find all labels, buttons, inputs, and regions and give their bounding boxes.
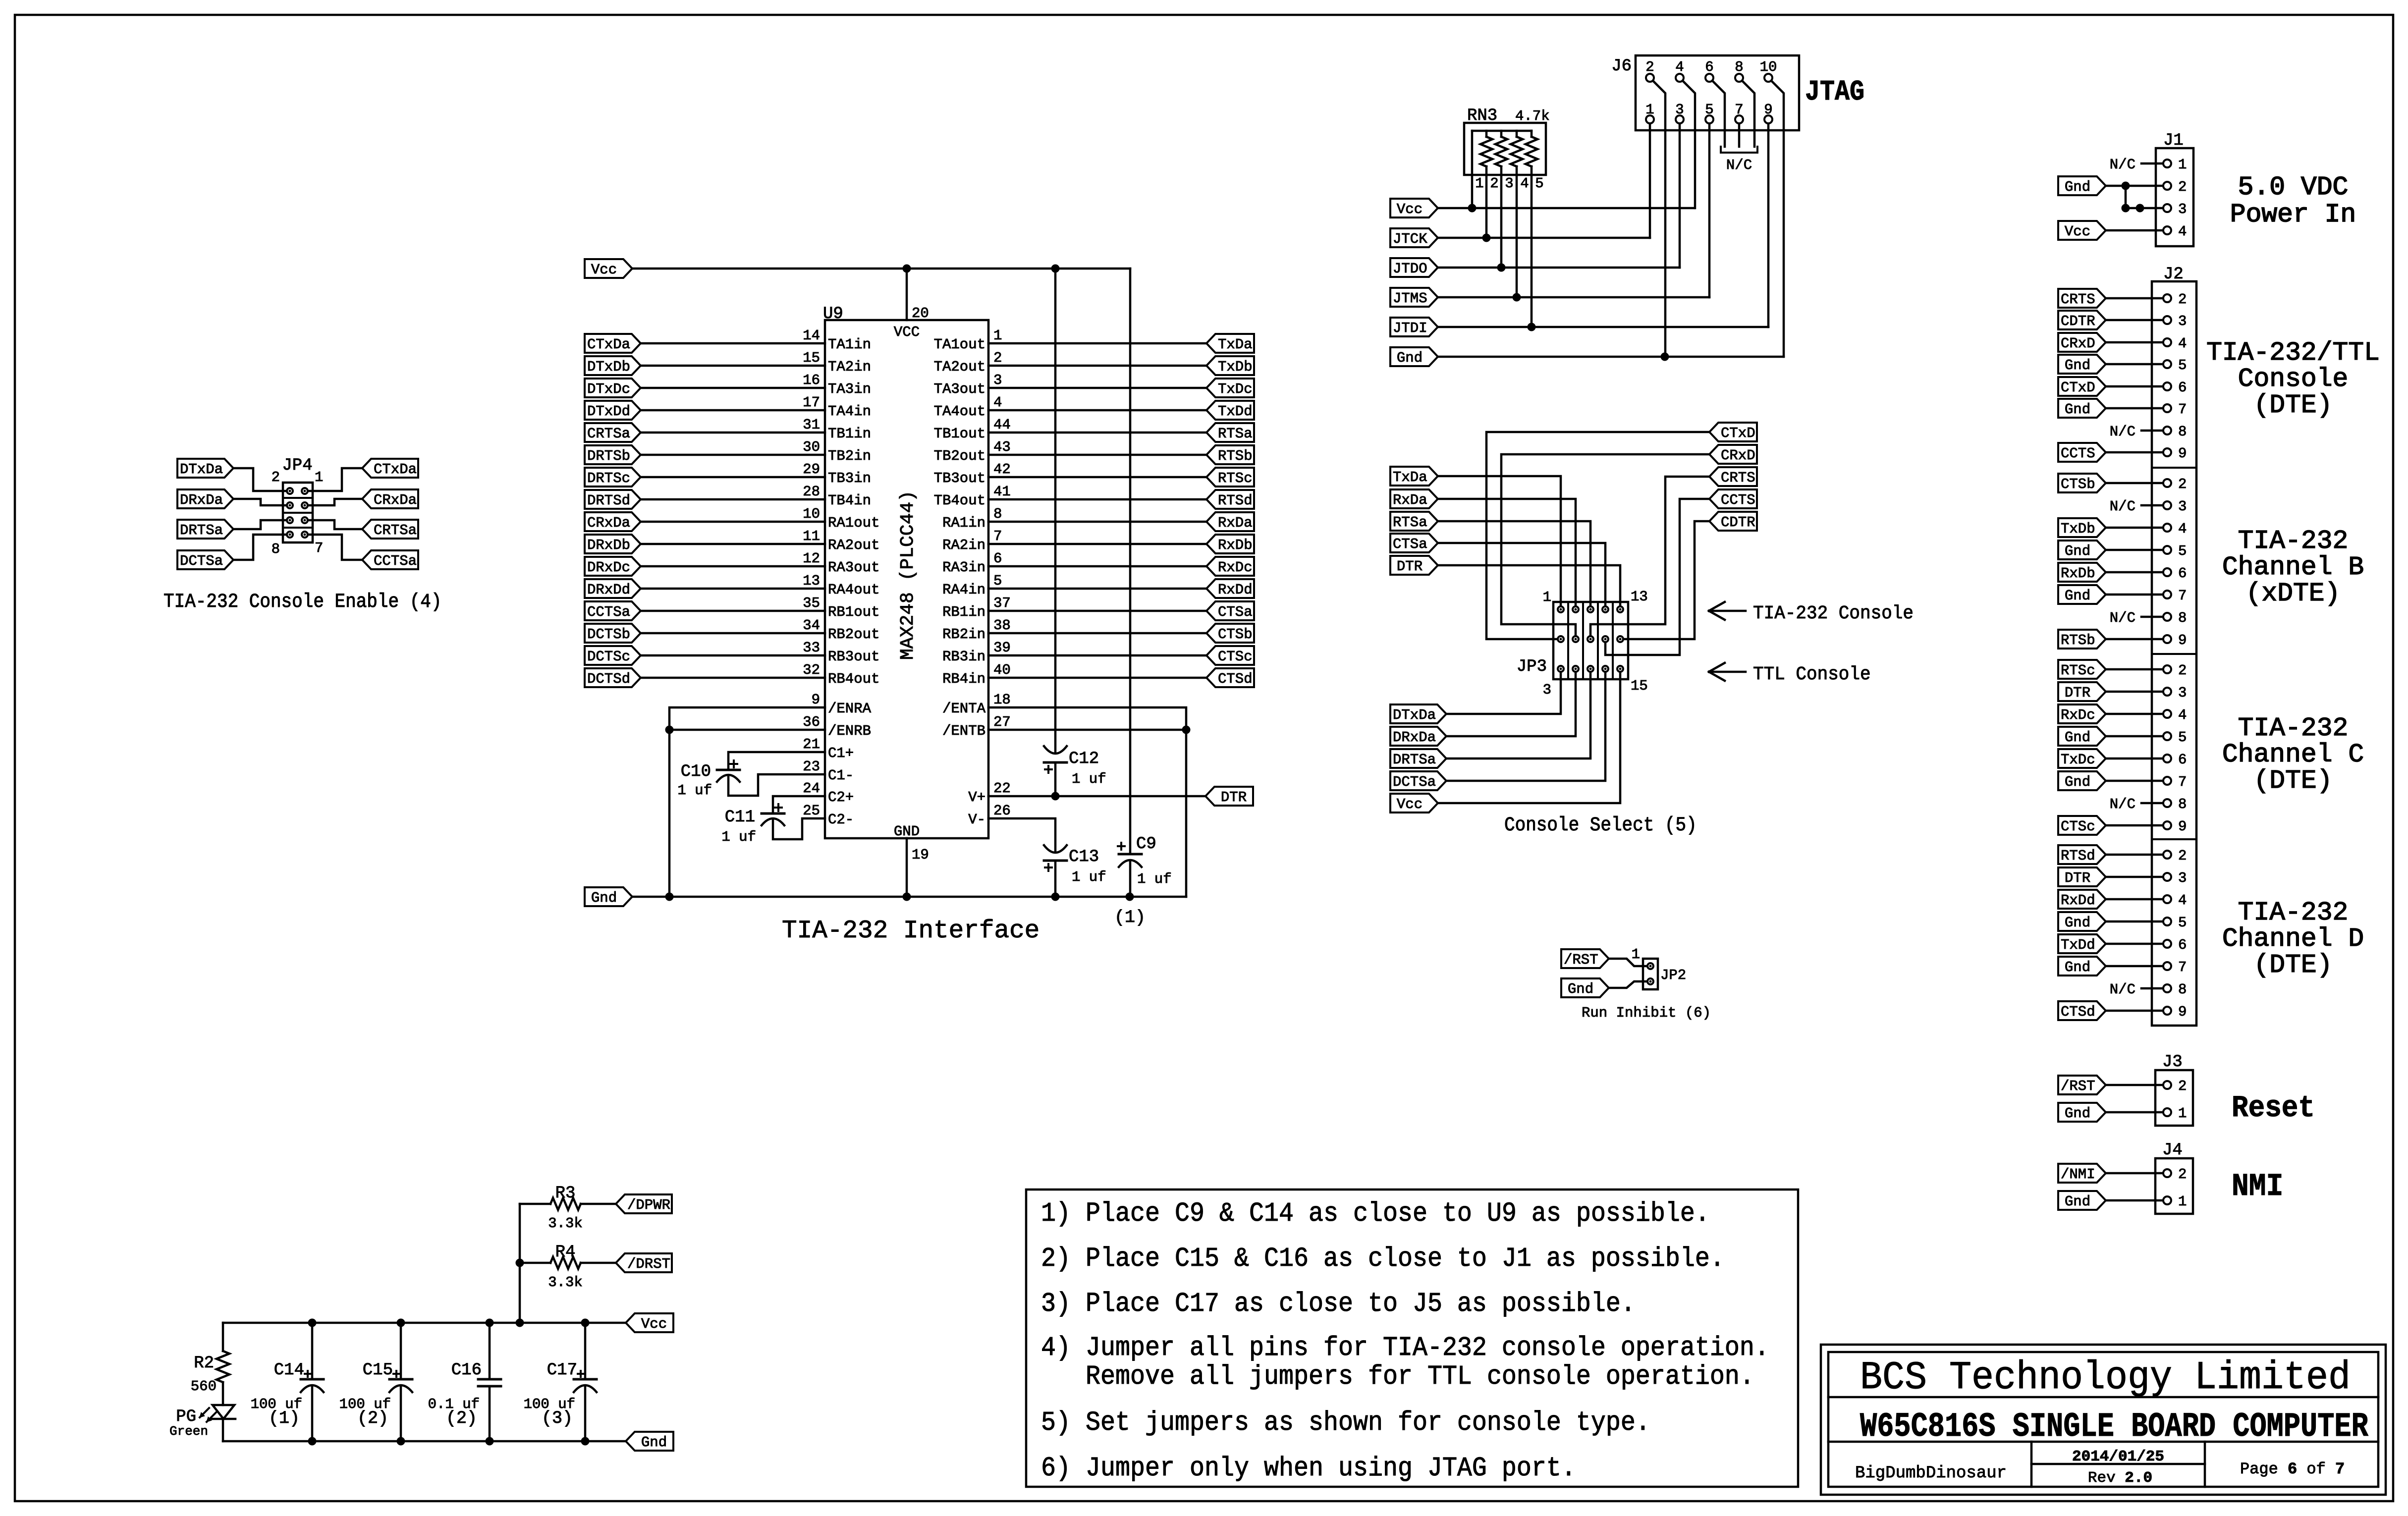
svg-text:8: 8 <box>2178 610 2187 626</box>
svg-text:RxDb: RxDb <box>2061 565 2095 582</box>
wire DCTSc to U9 pin 33 <box>641 654 825 657</box>
svg-text:3: 3 <box>1543 682 1551 698</box>
svg-text:TB4in: TB4in <box>828 492 871 509</box>
node Gnd (flag, JP2) <box>1561 978 1609 997</box>
svg-text:6: 6 <box>2178 379 2187 396</box>
svg-text:7: 7 <box>2178 774 2187 790</box>
node Gnd (flag, J2 group 2 pin 5) <box>2058 541 2106 559</box>
svg-text:Gnd: Gnd <box>591 890 617 906</box>
node DRxDa (flag, JP4 left) <box>177 489 233 508</box>
svg-text:JTDI: JTDI <box>1393 320 1427 336</box>
wire U9 pin 2 to TxDb <box>988 365 1206 367</box>
node DCTSc (flag, U9 left) <box>585 646 641 665</box>
label TIA-232/TTL Console (DTE) <box>2206 338 2380 420</box>
svg-text:Console: Console <box>2238 364 2349 394</box>
node TxDd (flag, U9 right) <box>1206 401 1254 420</box>
svg-text:3) Place C17 as close to J5 as: 3) Place C17 as close to J5 as possible. <box>1041 1288 1636 1319</box>
pin circle J2 <box>2163 635 2171 643</box>
pin circle J2 <box>2163 613 2171 621</box>
svg-text:37: 37 <box>993 595 1011 611</box>
svg-text:JP2: JP2 <box>1660 967 1686 983</box>
svg-text:4: 4 <box>2178 223 2187 240</box>
svg-text:CTSd: CTSd <box>2061 1004 2095 1020</box>
resistor RN3 element 3 <box>1511 131 1523 166</box>
svg-text:C1+: C1+ <box>828 745 854 761</box>
wire U9 pin 4 to TxDd <box>988 409 1206 412</box>
svg-text:5: 5 <box>993 573 1002 589</box>
svg-text:Gnd: Gnd <box>1568 981 1593 997</box>
capacitor C14 100 uf <box>251 1323 324 1441</box>
svg-text:38: 38 <box>993 617 1011 634</box>
svg-text:N/C: N/C <box>2110 498 2135 515</box>
pin circle J2 <box>2163 546 2171 554</box>
wire JP3 col 3 to DRTSa <box>1446 672 1590 758</box>
capacitor C13 <box>1044 845 1106 897</box>
wire JTDI (JTAG) <box>1438 326 1768 328</box>
svg-text:N/C: N/C <box>2110 610 2135 626</box>
wire CTxDa to U9 pin 14 <box>641 342 825 345</box>
svg-text:3: 3 <box>2178 313 2187 329</box>
node CTxD (flag, J2 group 1 pin 6) <box>2058 377 2106 396</box>
wire DTR to J2 pin <box>2106 876 2163 878</box>
label TIA-232 Channel B (xDTE) <box>2222 526 2364 608</box>
svg-text:TIA-232: TIA-232 <box>2238 526 2349 556</box>
capacitor C11 <box>721 804 784 845</box>
node /NMI (flag, J4) <box>2058 1164 2106 1183</box>
svg-text:JTCK: JTCK <box>1393 231 1427 247</box>
junction Vcc/pin20 <box>903 265 911 273</box>
svg-text:41: 41 <box>993 484 1011 500</box>
wire N/C stub <box>2141 616 2163 618</box>
svg-text:TxDd: TxDd <box>2061 937 2095 953</box>
svg-text:5: 5 <box>2178 915 2187 931</box>
svg-text:C12: C12 <box>1069 750 1099 768</box>
svg-text:N/C: N/C <box>2110 981 2135 998</box>
node /DPWR (flag) <box>616 1194 672 1213</box>
wire N/C stub <box>2141 802 2163 805</box>
node Gnd (flag, JTAG) <box>1390 347 1438 366</box>
svg-text:CRTSa: CRTSa <box>587 426 630 442</box>
pin circle J2 <box>2163 591 2171 598</box>
svg-text:CTSb: CTSb <box>1218 626 1253 643</box>
svg-text:TIA-232/TTL: TIA-232/TTL <box>2206 338 2380 368</box>
net Vcc (flag, U9 top) <box>585 259 632 278</box>
wire RTSc to J2 pin <box>2106 668 2163 671</box>
node CTSb (flag, U9 right) <box>1206 624 1254 643</box>
jumper block JP4 <box>282 456 313 542</box>
svg-text:RB2out: RB2out <box>828 626 879 643</box>
title block <box>1821 1345 2386 1495</box>
junction RN3-4/JTMS <box>1513 293 1521 302</box>
svg-text:1: 1 <box>2178 1193 2187 1210</box>
svg-text:DTR: DTR <box>2065 685 2090 701</box>
svg-text:RB3out: RB3out <box>828 649 879 665</box>
svg-text:TA1out: TA1out <box>934 336 985 353</box>
wire JTCK (JTAG) <box>1438 237 1650 239</box>
wire J6 pin 2 <box>1653 81 1665 357</box>
svg-text:RA2out: RA2out <box>828 537 879 553</box>
wire RN3 pin 4 <box>1516 166 1518 297</box>
wire U9 pin 19 stub <box>906 838 908 897</box>
wire U9 pin 41 to RTSd <box>988 498 1206 501</box>
junction Gnd/J6 pin 2 <box>1661 353 1669 361</box>
svg-text:Vcc: Vcc <box>591 262 617 278</box>
wire J6 pin 3 <box>1679 123 1681 268</box>
pin circle J2 <box>2163 799 2171 807</box>
svg-text:C16: C16 <box>451 1361 482 1380</box>
svg-text:DTxDa: DTxDa <box>1393 707 1436 723</box>
svg-text:RA4in: RA4in <box>942 582 985 598</box>
node CTSa (flag, U9 right) <box>1206 601 1254 620</box>
svg-text:C1-: C1- <box>828 767 854 784</box>
svg-text:TIA-232: TIA-232 <box>2238 898 2349 927</box>
node DTxDb (flag, U9 left) <box>585 356 641 375</box>
svg-text:7: 7 <box>993 528 1002 544</box>
pin circle J1 row 465 <box>2163 226 2171 234</box>
svg-text:1 uf: 1 uf <box>1072 771 1106 787</box>
pin circle J4-2 <box>2163 1169 2171 1177</box>
wire JP4 to CRxDa <box>308 499 362 505</box>
node /RST (flag, J3) <box>2058 1076 2106 1094</box>
svg-text:(2): (2) <box>446 1408 477 1428</box>
svg-text:C9: C9 <box>1136 835 1156 854</box>
node CTxDa (flag, JP4 right) <box>362 459 418 478</box>
svg-text:RA1out: RA1out <box>828 515 879 531</box>
wire DRxDa to JP4 <box>233 499 287 505</box>
svg-text:1 uf: 1 uf <box>1072 869 1106 885</box>
wire CDTR to J2 pin <box>2106 319 2163 322</box>
pin circle J2 <box>2163 479 2171 487</box>
svg-text:/ENRA: /ENRA <box>828 701 872 717</box>
pin circle J2 <box>2163 427 2171 434</box>
node TxDb (flag, U9 right) <box>1206 356 1254 375</box>
svg-text:16: 16 <box>803 372 820 388</box>
node CRxDa (flag, JP4 right) <box>362 489 418 508</box>
svg-text:DTxDa: DTxDa <box>180 461 223 478</box>
wire Gnd to J2 pin <box>2106 965 2163 968</box>
node TxDa (flag, JP3) <box>1390 467 1438 486</box>
svg-text:DTxDc: DTxDc <box>587 381 630 397</box>
svg-text:CRxDa: CRxDa <box>374 492 417 508</box>
node DTR (flag, JP3) <box>1390 556 1438 575</box>
node Gnd (flag, J2 group 3 pin 7) <box>2058 771 2106 790</box>
svg-text:RxDa: RxDa <box>1218 515 1253 531</box>
svg-text:Gnd: Gnd <box>2065 588 2090 604</box>
svg-text:29: 29 <box>803 461 820 478</box>
svg-text:Channel D: Channel D <box>2222 924 2364 954</box>
svg-text:Gnd: Gnd <box>641 1434 667 1451</box>
svg-text:TxDa: TxDa <box>1393 469 1427 486</box>
svg-text:Channel C: Channel C <box>2222 740 2364 769</box>
wire CRxD to JP3 <box>1501 454 1709 636</box>
svg-text:Gnd: Gnd <box>2065 1193 2090 1210</box>
wire RN3 pin 3 <box>1500 166 1503 268</box>
wire Vcc to J1 pin 4 <box>2106 229 2163 232</box>
svg-text:TxDa: TxDa <box>1218 336 1253 353</box>
svg-text:17: 17 <box>803 394 820 411</box>
wire U9 pin 44 to RTSa <box>988 432 1206 434</box>
svg-text:CTxD: CTxD <box>2061 379 2095 396</box>
node RxDb (flag, U9 right) <box>1206 535 1254 553</box>
svg-text:RxDd: RxDd <box>2061 892 2095 909</box>
svg-text:560: 560 <box>191 1378 217 1395</box>
node Gnd (flag, J2 group 4 pin 5) <box>2058 912 2106 931</box>
node RxDc (flag, U9 right) <box>1206 557 1254 576</box>
svg-text:25: 25 <box>803 803 820 819</box>
svg-text:J3: J3 <box>2162 1053 2183 1072</box>
svg-text:C11: C11 <box>725 808 755 827</box>
svg-text:Gnd: Gnd <box>2065 357 2090 374</box>
svg-text:TIA-232 Console: TIA-232 Console <box>1753 603 1914 624</box>
svg-text:CCTS: CCTS <box>1721 492 1755 508</box>
svg-text:Gnd: Gnd <box>2065 1105 2090 1122</box>
svg-text:DRTSa: DRTSa <box>1393 752 1436 768</box>
svg-text:1 uf: 1 uf <box>677 782 712 799</box>
svg-text:J2: J2 <box>2163 265 2184 284</box>
wire TxDa to JP3 col 1 <box>1438 476 1561 606</box>
svg-text:27: 27 <box>993 714 1011 730</box>
svg-text:1: 1 <box>993 327 1002 344</box>
junction RN3-5/JTDI <box>1528 323 1536 331</box>
svg-text:RxDc: RxDc <box>2061 707 2095 723</box>
wire J6 pin 5 <box>1708 123 1711 297</box>
svg-text:TB3in: TB3in <box>828 470 871 487</box>
svg-text:(DTE): (DTE) <box>2253 766 2332 796</box>
svg-text:33: 33 <box>803 640 820 656</box>
net Gnd (flag, bottom) <box>626 1432 673 1451</box>
svg-text:TB2out: TB2out <box>934 448 985 464</box>
wire Gnd to J2 pin <box>2106 594 2163 596</box>
capacitor C15 100 uf <box>339 1323 412 1441</box>
wire U9 pin 40 to CTSd <box>988 677 1206 679</box>
pin circle J2 <box>2163 732 2171 740</box>
wire J6 pin 10 <box>1771 81 1784 357</box>
wire U9 pin 37 to CTSa <box>988 610 1206 612</box>
wire U9 pin 7 to RxDb <box>988 543 1206 545</box>
wire Gnd to J3 pin 1 <box>2106 1111 2163 1114</box>
svg-text:TxDb: TxDb <box>1218 359 1253 375</box>
connector J4 <box>2155 1141 2193 1214</box>
wire DTxDc to U9 pin 16 <box>641 387 825 389</box>
node Gnd (flag, J4) <box>2058 1191 2106 1210</box>
junction Vcc rail x=630 <box>308 1319 317 1327</box>
wire CRxD to J2 pin <box>2106 341 2163 344</box>
node DTxDd (flag, U9 left) <box>585 401 641 420</box>
junction Gnd rail x=630 <box>308 1437 317 1446</box>
junction gnd/pin19 <box>903 893 911 901</box>
svg-text:1: 1 <box>315 469 323 486</box>
svg-text:43: 43 <box>993 439 1011 455</box>
svg-text:2) Place C15 & C16 as close to: 2) Place C15 & C16 as close to J1 as pos… <box>1041 1243 1725 1274</box>
svg-text:RA1in: RA1in <box>942 515 985 531</box>
svg-text:JP3: JP3 <box>1517 657 1547 676</box>
svg-text:TIA-232 Interface: TIA-232 Interface <box>782 917 1040 945</box>
junction gnd/C9 <box>1126 893 1134 901</box>
pin circle J6-5 <box>1705 115 1713 123</box>
wire CRTS to J2 pin <box>2106 297 2163 300</box>
resistor RN3 element 4 <box>1526 131 1537 166</box>
wire Gnd (JTAG) <box>1438 356 1784 358</box>
resistor RN3 element 2 <box>1495 131 1507 166</box>
svg-text:TB2in: TB2in <box>828 448 871 464</box>
wire RTSd to J2 pin <box>2106 854 2163 856</box>
pin circle J2 <box>2163 404 2171 412</box>
wire /RST to JP2 pin 1 <box>1609 959 1647 966</box>
svg-text:TA1in: TA1in <box>828 336 871 353</box>
wire DRxDd to U9 pin 13 <box>641 588 825 590</box>
pin circle J3-1 <box>2163 1108 2171 1116</box>
svg-text:CTSa: CTSa <box>1218 604 1253 620</box>
wire N/C stub <box>2141 430 2163 432</box>
wire Gnd to J4 pin 1 <box>2106 1199 2163 1202</box>
pin circle J2 <box>2163 524 2171 532</box>
svg-text:44: 44 <box>993 417 1011 433</box>
svg-text:DTR: DTR <box>1397 558 1423 575</box>
svg-text:CCTSa: CCTSa <box>587 604 630 620</box>
node CRxD (flag) <box>1709 445 1757 464</box>
svg-text:DRxDa: DRxDa <box>1393 729 1436 746</box>
node RxDd (flag, U9 right) <box>1206 579 1254 598</box>
jumper block JP3 <box>1553 602 1628 679</box>
pin circle J2 <box>2163 665 2171 673</box>
pin circle J2 <box>2163 1007 2171 1015</box>
pin circle J6-4 <box>1676 74 1684 82</box>
wire /NMI to J4 pin 2 <box>2106 1172 2163 1175</box>
svg-text:C13: C13 <box>1069 848 1099 866</box>
svg-text:8: 8 <box>993 506 1002 522</box>
svg-text:5.0 VDC: 5.0 VDC <box>2238 172 2349 202</box>
node CDTR (flag, J2 group 1 pin 3) <box>2058 311 2106 329</box>
svg-text:/RST: /RST <box>2061 1078 2095 1094</box>
svg-text:N/C: N/C <box>2110 796 2135 812</box>
svg-text:U9: U9 <box>823 305 843 324</box>
node DRxDa (flag, JP3 bottom) <box>1390 727 1446 746</box>
wire C1+ to C10 <box>728 752 825 770</box>
JP3 jumper pin circles <box>1558 606 1623 672</box>
svg-text:5) Set jumpers as shown for co: 5) Set jumpers as shown for console type… <box>1041 1407 1650 1438</box>
node DRxDd (flag, U9 left) <box>585 579 641 598</box>
node RTSd (flag, U9 right) <box>1206 490 1254 509</box>
svg-text:Page 6 of 7: Page 6 of 7 <box>2240 1460 2345 1478</box>
svg-text:CTSd: CTSd <box>1218 671 1253 687</box>
junction /ENTB <box>1182 726 1191 734</box>
svg-text:TA4in: TA4in <box>828 403 871 420</box>
svg-text:Gnd: Gnd <box>2065 729 2090 746</box>
pin circle J2 <box>2163 755 2171 762</box>
wire JTDO (JTAG) <box>1438 267 1680 269</box>
svg-text:TxDc: TxDc <box>2061 752 2095 768</box>
svg-text:CTSb: CTSb <box>2061 476 2095 492</box>
svg-text:5: 5 <box>2178 357 2187 374</box>
svg-text:RA4out: RA4out <box>828 582 879 598</box>
pin circle J2 <box>2163 316 2171 324</box>
node Gnd (flag, J2 group 1 pin 7) <box>2058 399 2106 418</box>
node RTSc (flag, J2 group 3 pin 2) <box>2058 660 2106 679</box>
wire CTxD to JP3 <box>1486 432 1709 639</box>
svg-text:4: 4 <box>2178 521 2187 537</box>
node CCTSa (flag, U9 left) <box>585 601 641 620</box>
junction R4 tap <box>516 1259 524 1267</box>
svg-text:(2): (2) <box>357 1408 388 1428</box>
svg-text:DRTSc: DRTSc <box>587 470 630 487</box>
wire Gnd to J2 pin <box>2106 780 2163 782</box>
svg-text:NMI: NMI <box>2232 1169 2283 1205</box>
wire Vcc rail to U9 pin 20 / C12 / C9 <box>632 268 1130 270</box>
svg-text:RxDb: RxDb <box>1218 537 1253 553</box>
pin circle J6-9 <box>1764 115 1772 123</box>
node CTSc (flag, U9 right) <box>1206 646 1254 665</box>
svg-text:Channel B: Channel B <box>2222 552 2364 582</box>
pin circle J2 <box>2163 338 2171 346</box>
svg-text:TTL Console: TTL Console <box>1753 664 1871 685</box>
svg-text:Green: Green <box>169 1424 208 1439</box>
svg-text:14: 14 <box>803 327 820 344</box>
svg-text:DCTSa: DCTSa <box>180 553 223 569</box>
svg-text:DRxDa: DRxDa <box>180 492 223 508</box>
capacitor C9 <box>1118 269 1172 897</box>
node DTR (flag) <box>1205 787 1253 806</box>
svg-text:10: 10 <box>803 506 820 522</box>
svg-text:(1): (1) <box>1114 908 1146 927</box>
svg-text:15: 15 <box>803 350 820 366</box>
wire V+ to DTR <box>988 795 1205 798</box>
svg-text:JTMS: JTMS <box>1393 290 1427 307</box>
svg-text:(DTE): (DTE) <box>2253 950 2332 980</box>
svg-text:RxDa: RxDa <box>1393 492 1427 508</box>
svg-text:DCTSc: DCTSc <box>587 649 630 665</box>
svg-text:2014/01/25: 2014/01/25 <box>2072 1448 2164 1465</box>
node DTxDa (flag, JP4 left) <box>177 459 233 478</box>
svg-text:Console Select (5): Console Select (5) <box>1504 814 1697 837</box>
node Vcc (flag, JP3 bottom) <box>1390 794 1438 812</box>
net Gnd (flag, U9 bottom) <box>585 887 632 906</box>
svg-text:TIA-232 Console Enable (4): TIA-232 Console Enable (4) <box>164 591 441 613</box>
svg-text:TB4out: TB4out <box>934 492 985 509</box>
svg-text:26: 26 <box>993 803 1011 819</box>
svg-text:(3): (3) <box>542 1408 573 1428</box>
junction V+/C12 <box>1051 792 1060 801</box>
wire U9 pin 1 to TxDa <box>988 342 1206 345</box>
svg-text:2: 2 <box>1490 175 1498 192</box>
pin circle J6-7 <box>1735 115 1743 123</box>
pin circle J2 <box>2163 382 2171 390</box>
pin circle J2 <box>2163 984 2171 992</box>
wire RN3 pin 2 <box>1485 166 1488 238</box>
node Gnd (flag, J3) <box>2058 1103 2106 1122</box>
svg-text:TA2out: TA2out <box>934 359 985 375</box>
svg-text:2: 2 <box>272 469 280 486</box>
node CTSc (flag, J2 group 3 pin 9) <box>2058 816 2106 835</box>
node DRTSb (flag, U9 left) <box>585 445 641 464</box>
wire RN3 pin 1 (common) to Vcc <box>1471 131 1474 208</box>
svg-text:CTSa: CTSa <box>1393 536 1427 552</box>
node CDTR (flag) <box>1709 512 1757 531</box>
wire CDTR to JP3 <box>1623 521 1709 639</box>
pin circle J2 <box>2163 568 2171 576</box>
wire U9 pin 5 to RxDd <box>988 588 1206 590</box>
pin circle J2 <box>2163 501 2171 509</box>
svg-text:40: 40 <box>993 662 1011 678</box>
svg-text:DCTSa: DCTSa <box>1393 774 1436 790</box>
svg-text:TA2in: TA2in <box>828 359 871 375</box>
wire DTR to JP3 col 5 <box>1438 565 1620 606</box>
node Gnd (flag, J2 group 4 pin 7) <box>2058 957 2106 975</box>
resistor RN3 element 1 <box>1480 131 1492 166</box>
label 5.0 VDC Power In <box>2230 172 2356 229</box>
node DCTSd (flag, U9 left) <box>585 668 641 687</box>
wire Gnd to J2 pin <box>2106 363 2163 366</box>
wire N/C stub <box>2141 504 2163 507</box>
